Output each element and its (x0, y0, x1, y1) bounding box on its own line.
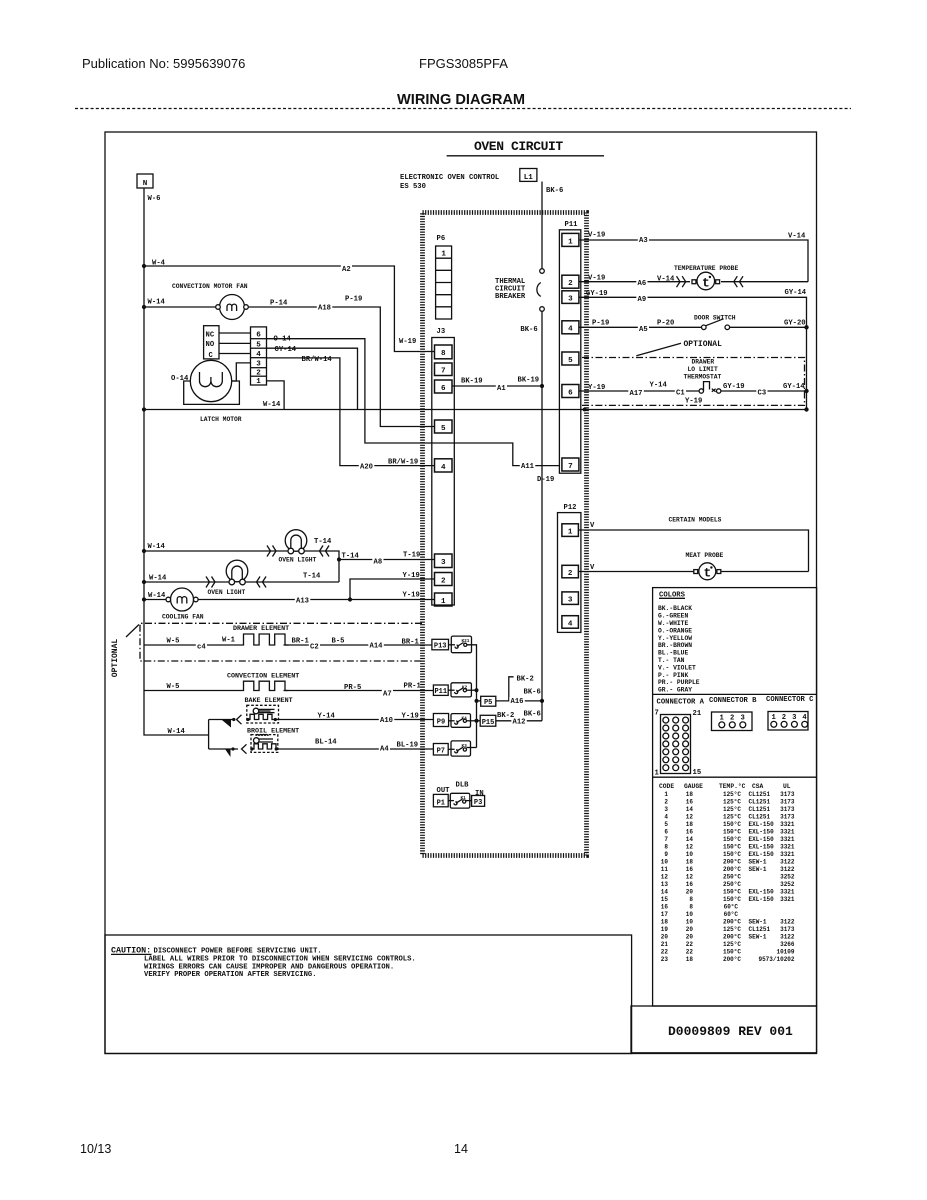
OVEN CIRCUIT underline (447, 155, 604, 157)
svg-text:125°C: 125°C (723, 814, 741, 821)
wire V-19/A6 to temperature probe (579, 281, 690, 283)
svg-text:3321: 3321 (780, 821, 795, 828)
svg-text:DLB: DLB (456, 782, 470, 790)
svg-text:GY-19: GY-19 (586, 290, 608, 298)
wire O-14 pin6 to A11 path (267, 339, 560, 466)
wire T-19/A8 to J3 pin 3 (339, 559, 435, 561)
connector P7 (433, 744, 448, 756)
wire latch pin 3 to motor (232, 363, 251, 381)
svg-text:CONVECTION ELEMENT: CONVECTION ELEMENT (227, 673, 299, 681)
svg-text:18: 18 (686, 791, 694, 798)
svg-text:16: 16 (686, 829, 694, 836)
svg-text:3: 3 (256, 361, 261, 369)
wire K21 out to relay bus (467, 645, 477, 748)
node neutral long wire left (142, 407, 146, 411)
svg-text:OVEN LIGHT: OVEN LIGHT (208, 589, 246, 596)
svg-text:150°C: 150°C (723, 851, 741, 858)
svg-text:W-5: W-5 (167, 638, 180, 646)
wire to oven light 2 (144, 581, 229, 583)
svg-text:W-14: W-14 (148, 543, 166, 551)
svg-text:21: 21 (693, 710, 702, 718)
svg-text:3122: 3122 (780, 934, 795, 941)
wire latch motor frame loop (184, 381, 240, 404)
P11 pin 1 (562, 233, 579, 246)
J3 pin 7 (435, 363, 453, 376)
svg-text:60°C: 60°C (724, 904, 739, 911)
svg-text:5: 5 (256, 342, 261, 350)
J3 pin 1 (435, 593, 453, 606)
svg-text:5: 5 (664, 821, 668, 828)
svg-text:7: 7 (568, 463, 573, 471)
wire BK-6 from L1 to thermal breaker (541, 182, 543, 269)
svg-text:1: 1 (568, 528, 573, 536)
svg-text:D0009809 REV 001: D0009809 REV 001 (668, 1024, 793, 1039)
svg-text:Y-14: Y-14 (318, 712, 336, 720)
svg-text:10: 10 (686, 851, 694, 858)
svg-text:3: 3 (664, 806, 668, 813)
latch switch contact label box NC NO C (204, 326, 219, 359)
connector P9 (433, 714, 448, 727)
wire branch to bake element (209, 719, 234, 721)
svg-text:SEW-1: SEW-1 (749, 934, 767, 941)
svg-text:150°C: 150°C (723, 821, 741, 828)
svg-text:3252: 3252 (780, 874, 795, 881)
svg-text:P15: P15 (482, 719, 495, 727)
node A1 junction dot (540, 384, 544, 388)
svg-text:18: 18 (686, 956, 694, 963)
svg-text:A4: A4 (380, 746, 389, 754)
svg-text:18: 18 (686, 821, 694, 828)
wire BK-19/A1 J3-6 to breaker bus (452, 385, 542, 387)
wire NO to pin 5 (219, 342, 251, 344)
svg-text:PR-5: PR-5 (344, 684, 361, 692)
svg-text:NC: NC (206, 331, 215, 339)
svg-text:V-14: V-14 (788, 233, 806, 241)
broil element (251, 735, 278, 753)
svg-text:P9: P9 (437, 718, 445, 726)
svg-text:17: 17 (661, 911, 669, 918)
wire long neutral run across to thermostat return (144, 409, 807, 411)
connector P13 (432, 639, 449, 650)
svg-text:A17: A17 (630, 390, 643, 398)
svg-text:BK-6: BK-6 (524, 711, 541, 719)
latch connector pin column (251, 327, 267, 385)
wire to oven light 1 (144, 550, 288, 552)
svg-text:2: 2 (256, 369, 261, 377)
P11 pin 3 (562, 291, 579, 304)
svg-text:BK-19: BK-19 (461, 378, 483, 386)
svg-text:VERIFY PROPER OPERATION AFTER: VERIFY PROPER OPERATION AFTER SERVICING. (144, 971, 317, 979)
wire P1 to K1 (448, 800, 454, 802)
svg-text:OVEN CIRCUIT: OVEN CIRCUIT (474, 139, 563, 154)
wire W-14 rail to bake/broil branch (208, 720, 210, 750)
svg-text:CONNECTOR C: CONNECTOR C (766, 696, 814, 704)
svg-text:4: 4 (256, 351, 261, 359)
svg-text:250°C: 250°C (723, 874, 741, 881)
svg-text:SEW-1: SEW-1 (749, 866, 767, 873)
svg-text:60°C: 60°C (724, 911, 739, 918)
svg-text:4: 4 (568, 620, 573, 628)
svg-text:BAKE ELEMENT: BAKE ELEMENT (245, 697, 293, 705)
svg-text:3122: 3122 (780, 866, 795, 873)
wire W-5 to convection element (144, 690, 240, 692)
svg-text:125°C: 125°C (723, 806, 741, 813)
svg-text:V-19: V-19 (588, 232, 605, 240)
broil sheath terminal (225, 749, 231, 757)
caution box (105, 935, 632, 1054)
svg-text:W-5: W-5 (167, 683, 180, 691)
svg-text:W-19: W-19 (399, 338, 416, 346)
wire to cooling fan (144, 599, 168, 601)
svg-text:BK-6: BK-6 (520, 326, 537, 334)
connector B body (712, 712, 753, 731)
svg-text:W-14: W-14 (168, 728, 186, 736)
svg-text:A3: A3 (639, 237, 648, 245)
svg-text:9: 9 (664, 851, 668, 858)
wire GY-20 door switch to node (730, 326, 807, 328)
svg-text:Y-19: Y-19 (685, 397, 702, 405)
svg-text:GY-14: GY-14 (783, 383, 805, 391)
svg-text:A10: A10 (380, 717, 393, 725)
svg-text:WIRINGS ERRORS CAN CAUSE IMPRO: WIRINGS ERRORS CAN CAUSE IMPROPER AND DA… (144, 963, 394, 971)
svg-text:1: 1 (568, 238, 573, 246)
svg-text:P13: P13 (434, 643, 447, 651)
svg-text:O.-ORANGE: O.-ORANGE (658, 627, 692, 634)
svg-text:18: 18 (661, 919, 669, 926)
wire BK-6 breaker to A1 junction (541, 311, 543, 386)
connector P11 board lower (433, 685, 448, 695)
svg-text:P11: P11 (434, 688, 447, 696)
wire GY-19/C3/GY-14 thermostat to node (721, 390, 807, 392)
svg-text:14: 14 (686, 806, 694, 813)
svg-text:BR.-BROWN: BR.-BROWN (658, 642, 692, 649)
wire P-14/A18/P-19 fan to J3 pin 5 (248, 307, 434, 427)
terminal L1 (520, 169, 537, 182)
svg-text:7: 7 (655, 710, 659, 718)
svg-text:FPGS3085PFA: FPGS3085PFA (419, 56, 508, 71)
svg-text:V-14: V-14 (657, 276, 675, 284)
optional pointer line (126, 625, 139, 638)
svg-text:3321: 3321 (780, 896, 795, 903)
svg-text:P7: P7 (437, 748, 445, 756)
svg-text:3: 3 (441, 559, 446, 567)
svg-text:BK-6: BK-6 (524, 689, 541, 697)
relay K1 (450, 793, 470, 808)
svg-text:N: N (143, 180, 148, 188)
wire BK-6 down to A16 node (541, 386, 543, 721)
svg-text:PR-1: PR-1 (404, 683, 422, 691)
node W-4 junction (142, 264, 146, 268)
svg-text:WIRING DIAGRAM: WIRING DIAGRAM (397, 92, 525, 108)
P11 pin 4 (562, 321, 579, 334)
wire BR/W-14 pin4 to J3 pin 4 (267, 358, 435, 466)
plug chevrons row2 right (257, 577, 267, 588)
svg-text:BR-1: BR-1 (402, 639, 420, 647)
svg-text:P-19: P-19 (345, 296, 362, 304)
svg-text:7: 7 (441, 368, 446, 376)
svg-text:B-5: B-5 (332, 638, 345, 646)
svg-text:10: 10 (661, 859, 669, 866)
svg-text:Y-19: Y-19 (402, 712, 419, 720)
connector P15 (480, 715, 496, 726)
svg-text:Y-19: Y-19 (588, 384, 605, 392)
wire P13 to K21 (449, 644, 456, 646)
J3 pin 6 (435, 380, 453, 393)
svg-text:P11: P11 (565, 221, 579, 229)
svg-text:A7: A7 (383, 691, 392, 699)
svg-text:3321: 3321 (780, 829, 795, 836)
svg-text:200°C: 200°C (723, 866, 741, 873)
colors legend box (653, 588, 817, 1006)
svg-text:8: 8 (664, 844, 668, 851)
svg-text:6: 6 (568, 389, 573, 397)
svg-text:22: 22 (686, 941, 694, 948)
svg-text:A5: A5 (639, 326, 648, 334)
svg-text:Publication No: 5995639076: Publication No: 5995639076 (82, 56, 245, 71)
wire Y-19 branch to J3 pin 2 (350, 579, 435, 600)
svg-text:3: 3 (568, 295, 573, 303)
svg-text:BR/W-19: BR/W-19 (388, 459, 418, 467)
svg-text:150°C: 150°C (723, 836, 741, 843)
wire K3 out to bus (467, 747, 477, 749)
svg-text:22: 22 (661, 949, 669, 956)
svg-text:200°C: 200°C (723, 919, 741, 926)
wire BL-14/A4 broil to P7 (277, 748, 434, 750)
svg-text:EXL-150: EXL-150 (749, 844, 775, 851)
svg-text:EXL-150: EXL-150 (749, 821, 775, 828)
svg-text:1: 1 (655, 770, 660, 778)
svg-text:2: 2 (664, 799, 668, 806)
latch motor (190, 360, 231, 401)
svg-text:CERTAIN MODELS: CERTAIN MODELS (669, 517, 722, 524)
svg-text:A18: A18 (318, 305, 331, 313)
svg-text:125°C: 125°C (723, 791, 741, 798)
svg-text:BREAKER: BREAKER (495, 293, 526, 301)
wire GY-14 pin5 down to long neutral wire (267, 348, 358, 409)
svg-text:EXL-150: EXL-150 (749, 889, 775, 896)
svg-text:1: 1 (441, 250, 446, 258)
svg-text:P-20: P-20 (657, 320, 674, 328)
svg-text:19: 19 (661, 926, 669, 933)
svg-text:20: 20 (661, 934, 669, 941)
svg-text:15: 15 (693, 769, 702, 777)
svg-text:P-19: P-19 (592, 320, 609, 328)
temperature probe (692, 280, 696, 284)
svg-text:W-14: W-14 (149, 575, 167, 583)
svg-text:P1: P1 (437, 799, 445, 807)
svg-text:A9: A9 (638, 296, 647, 304)
wire GY riser to thermostat return (806, 327, 808, 409)
svg-text:6: 6 (664, 829, 668, 836)
svg-text:200°C: 200°C (723, 956, 741, 963)
svg-text:V: V (590, 522, 595, 530)
svg-text:BL.-BLUE: BL.-BLUE (658, 650, 688, 657)
wire BR-1/B-5/A14 drawer element to P13 (284, 644, 432, 646)
wire P5 to A16 to BK-6 bus (496, 700, 542, 702)
relay K4 (451, 714, 471, 728)
svg-text:LO LIMIT: LO LIMIT (688, 366, 718, 373)
svg-text:A12: A12 (513, 719, 526, 727)
wire light2 to junction (245, 581, 339, 583)
svg-text:200°C: 200°C (723, 859, 741, 866)
svg-text:3173: 3173 (780, 926, 795, 933)
svg-text:Y-19: Y-19 (403, 592, 420, 600)
svg-text:16: 16 (686, 866, 694, 873)
svg-text:W-14: W-14 (148, 299, 166, 307)
svg-text:ELECTRONIC OVEN CONTROL: ELECTRONIC OVEN CONTROL (400, 174, 499, 182)
svg-text:A14: A14 (370, 643, 384, 651)
svg-text:EXL-150: EXL-150 (749, 829, 775, 836)
node GY-20 junction (804, 325, 808, 329)
svg-text:12: 12 (661, 874, 669, 881)
svg-text:GR.- GRAY: GR.- GRAY (658, 687, 692, 694)
svg-text:6: 6 (441, 385, 446, 393)
svg-text:2: 2 (568, 570, 573, 578)
oven light 2 (226, 560, 248, 582)
svg-text:3321: 3321 (780, 836, 795, 843)
svg-text:125°C: 125°C (723, 941, 741, 948)
svg-text:NO: NO (206, 341, 215, 349)
wire W-5 to drawer element (144, 644, 240, 646)
svg-text:10: 10 (686, 911, 694, 918)
svg-text:T-14: T-14 (314, 538, 332, 546)
wire meat probe return (721, 571, 808, 573)
svg-text:COOLING FAN: COOLING FAN (162, 614, 204, 621)
svg-text:8: 8 (689, 904, 693, 911)
svg-text:DRAWER: DRAWER (692, 359, 715, 366)
relay K2 (451, 683, 471, 697)
wire rail to fan (144, 306, 217, 308)
svg-text:SEW-1: SEW-1 (749, 859, 767, 866)
svg-text:10/13: 10/13 (80, 1142, 111, 1156)
node relay bus P5 tap (475, 699, 479, 703)
wire Y-19/A17 P11-6 to thermostat (579, 390, 699, 392)
convection motor fan (220, 295, 245, 320)
svg-text:BR/W-14: BR/W-14 (302, 356, 333, 364)
svg-text:C3: C3 (758, 389, 767, 397)
svg-text:CONNECTOR A: CONNECTOR A (657, 699, 705, 707)
svg-text:W.-WHITE: W.-WHITE (658, 620, 688, 627)
svg-text:150°C: 150°C (723, 889, 741, 896)
plug chevrons probe right (734, 276, 743, 287)
svg-text:MEAT PROBE: MEAT PROBE (686, 552, 724, 559)
svg-text:BK.-BLACK: BK.-BLACK (658, 605, 692, 612)
wire K4 out (467, 720, 477, 722)
svg-text:A11: A11 (521, 463, 535, 471)
svg-text:A2: A2 (342, 266, 351, 274)
svg-text:CL1251: CL1251 (749, 791, 771, 798)
svg-text:CSA: CSA (752, 783, 764, 790)
svg-text:t: t (702, 275, 710, 290)
svg-text:4: 4 (441, 464, 446, 472)
wire Y-14/A10 bake to P9 (276, 719, 434, 721)
svg-text:A8: A8 (374, 559, 383, 567)
plug chevrons probe left (677, 276, 686, 287)
svg-text:LATCH MOTOR: LATCH MOTOR (200, 416, 242, 423)
svg-text:P12: P12 (564, 504, 577, 512)
svg-text:8: 8 (441, 350, 446, 358)
plug chevrons row1 right (320, 546, 330, 557)
wire W-4/A2 to J3 pin 8 (144, 266, 435, 352)
connector P3 (472, 796, 485, 807)
relay K21 (451, 636, 471, 653)
svg-text:12: 12 (686, 844, 694, 851)
node oven light row 2 (142, 580, 146, 584)
svg-text:V.- VIOLET: V.- VIOLET (658, 664, 696, 671)
svg-text:14: 14 (661, 889, 669, 896)
svg-text:DRAWER ELEMENT: DRAWER ELEMENT (233, 625, 289, 633)
svg-text:3173: 3173 (780, 799, 795, 806)
svg-text:14: 14 (686, 836, 694, 843)
node thermostat return (804, 389, 808, 393)
wire GY-19/A9 P11-3 (579, 297, 807, 327)
svg-text:1: 1 (256, 378, 261, 386)
meat probe (694, 570, 698, 574)
wire probe to V-14 riser (721, 281, 808, 283)
svg-text:21: 21 (661, 941, 669, 948)
svg-text:CL1251: CL1251 (749, 799, 771, 806)
wire bus to P5 (477, 700, 481, 702)
plug chevrons row2 left (206, 577, 215, 588)
svg-text:O-14: O-14 (171, 375, 189, 383)
svg-text:c4: c4 (197, 644, 206, 652)
P12 pin 3 (562, 592, 579, 605)
J3 pin 2 (435, 573, 453, 586)
svg-text:12: 12 (686, 874, 694, 881)
svg-text:A1: A1 (497, 385, 506, 393)
svg-text:20: 20 (686, 934, 694, 941)
wire P7 to K3 (448, 748, 454, 750)
connector J3 housing (432, 338, 455, 606)
svg-text:20: 20 (686, 926, 694, 933)
svg-text:GAUGE: GAUGE (684, 783, 703, 790)
svg-text:10109: 10109 (776, 949, 794, 956)
P11 pin 6 (562, 385, 579, 398)
svg-text:250°C: 250°C (723, 881, 741, 888)
svg-text:OPTIONAL: OPTIONAL (684, 340, 723, 349)
relay K3 (451, 741, 471, 756)
wire light1 to junction (304, 551, 339, 582)
node A8 branch (337, 557, 341, 561)
node cooling fan row (142, 597, 146, 601)
svg-text:5: 5 (568, 357, 573, 365)
svg-text:150°C: 150°C (723, 829, 741, 836)
svg-text:T-14: T-14 (342, 553, 360, 561)
svg-text:3: 3 (568, 597, 573, 605)
P12 pin 2 (562, 565, 579, 578)
svg-text:G.-GREEN: G.-GREEN (658, 613, 688, 620)
svg-text:15: 15 (661, 896, 669, 903)
svg-text:P5: P5 (484, 699, 492, 707)
svg-text:4: 4 (664, 814, 668, 821)
wire C to pin 4 (219, 353, 251, 355)
J3 pin 5 (435, 420, 453, 433)
svg-text:GY-14: GY-14 (275, 346, 297, 354)
svg-text:ES 530: ES 530 (400, 183, 426, 191)
svg-text:LABEL ALL WIRES PRIOR TO DISCO: LABEL ALL WIRES PRIOR TO DISCONNECTION W… (144, 955, 416, 963)
svg-text:C1: C1 (676, 389, 685, 397)
outer diagram frame (105, 132, 817, 1054)
svg-text:Y.-YELLOW: Y.-YELLOW (658, 635, 692, 642)
svg-text:C2: C2 (310, 644, 319, 652)
svg-text:A16: A16 (511, 698, 524, 706)
P12 pin 4 (562, 616, 579, 629)
svg-text:THERMOSTAT: THERMOSTAT (684, 373, 722, 380)
svg-text:23: 23 (661, 956, 669, 963)
connector P12 housing (558, 513, 581, 633)
wire V P12-1 meat probe loop (579, 530, 809, 572)
svg-text:GY-19: GY-19 (723, 383, 745, 391)
